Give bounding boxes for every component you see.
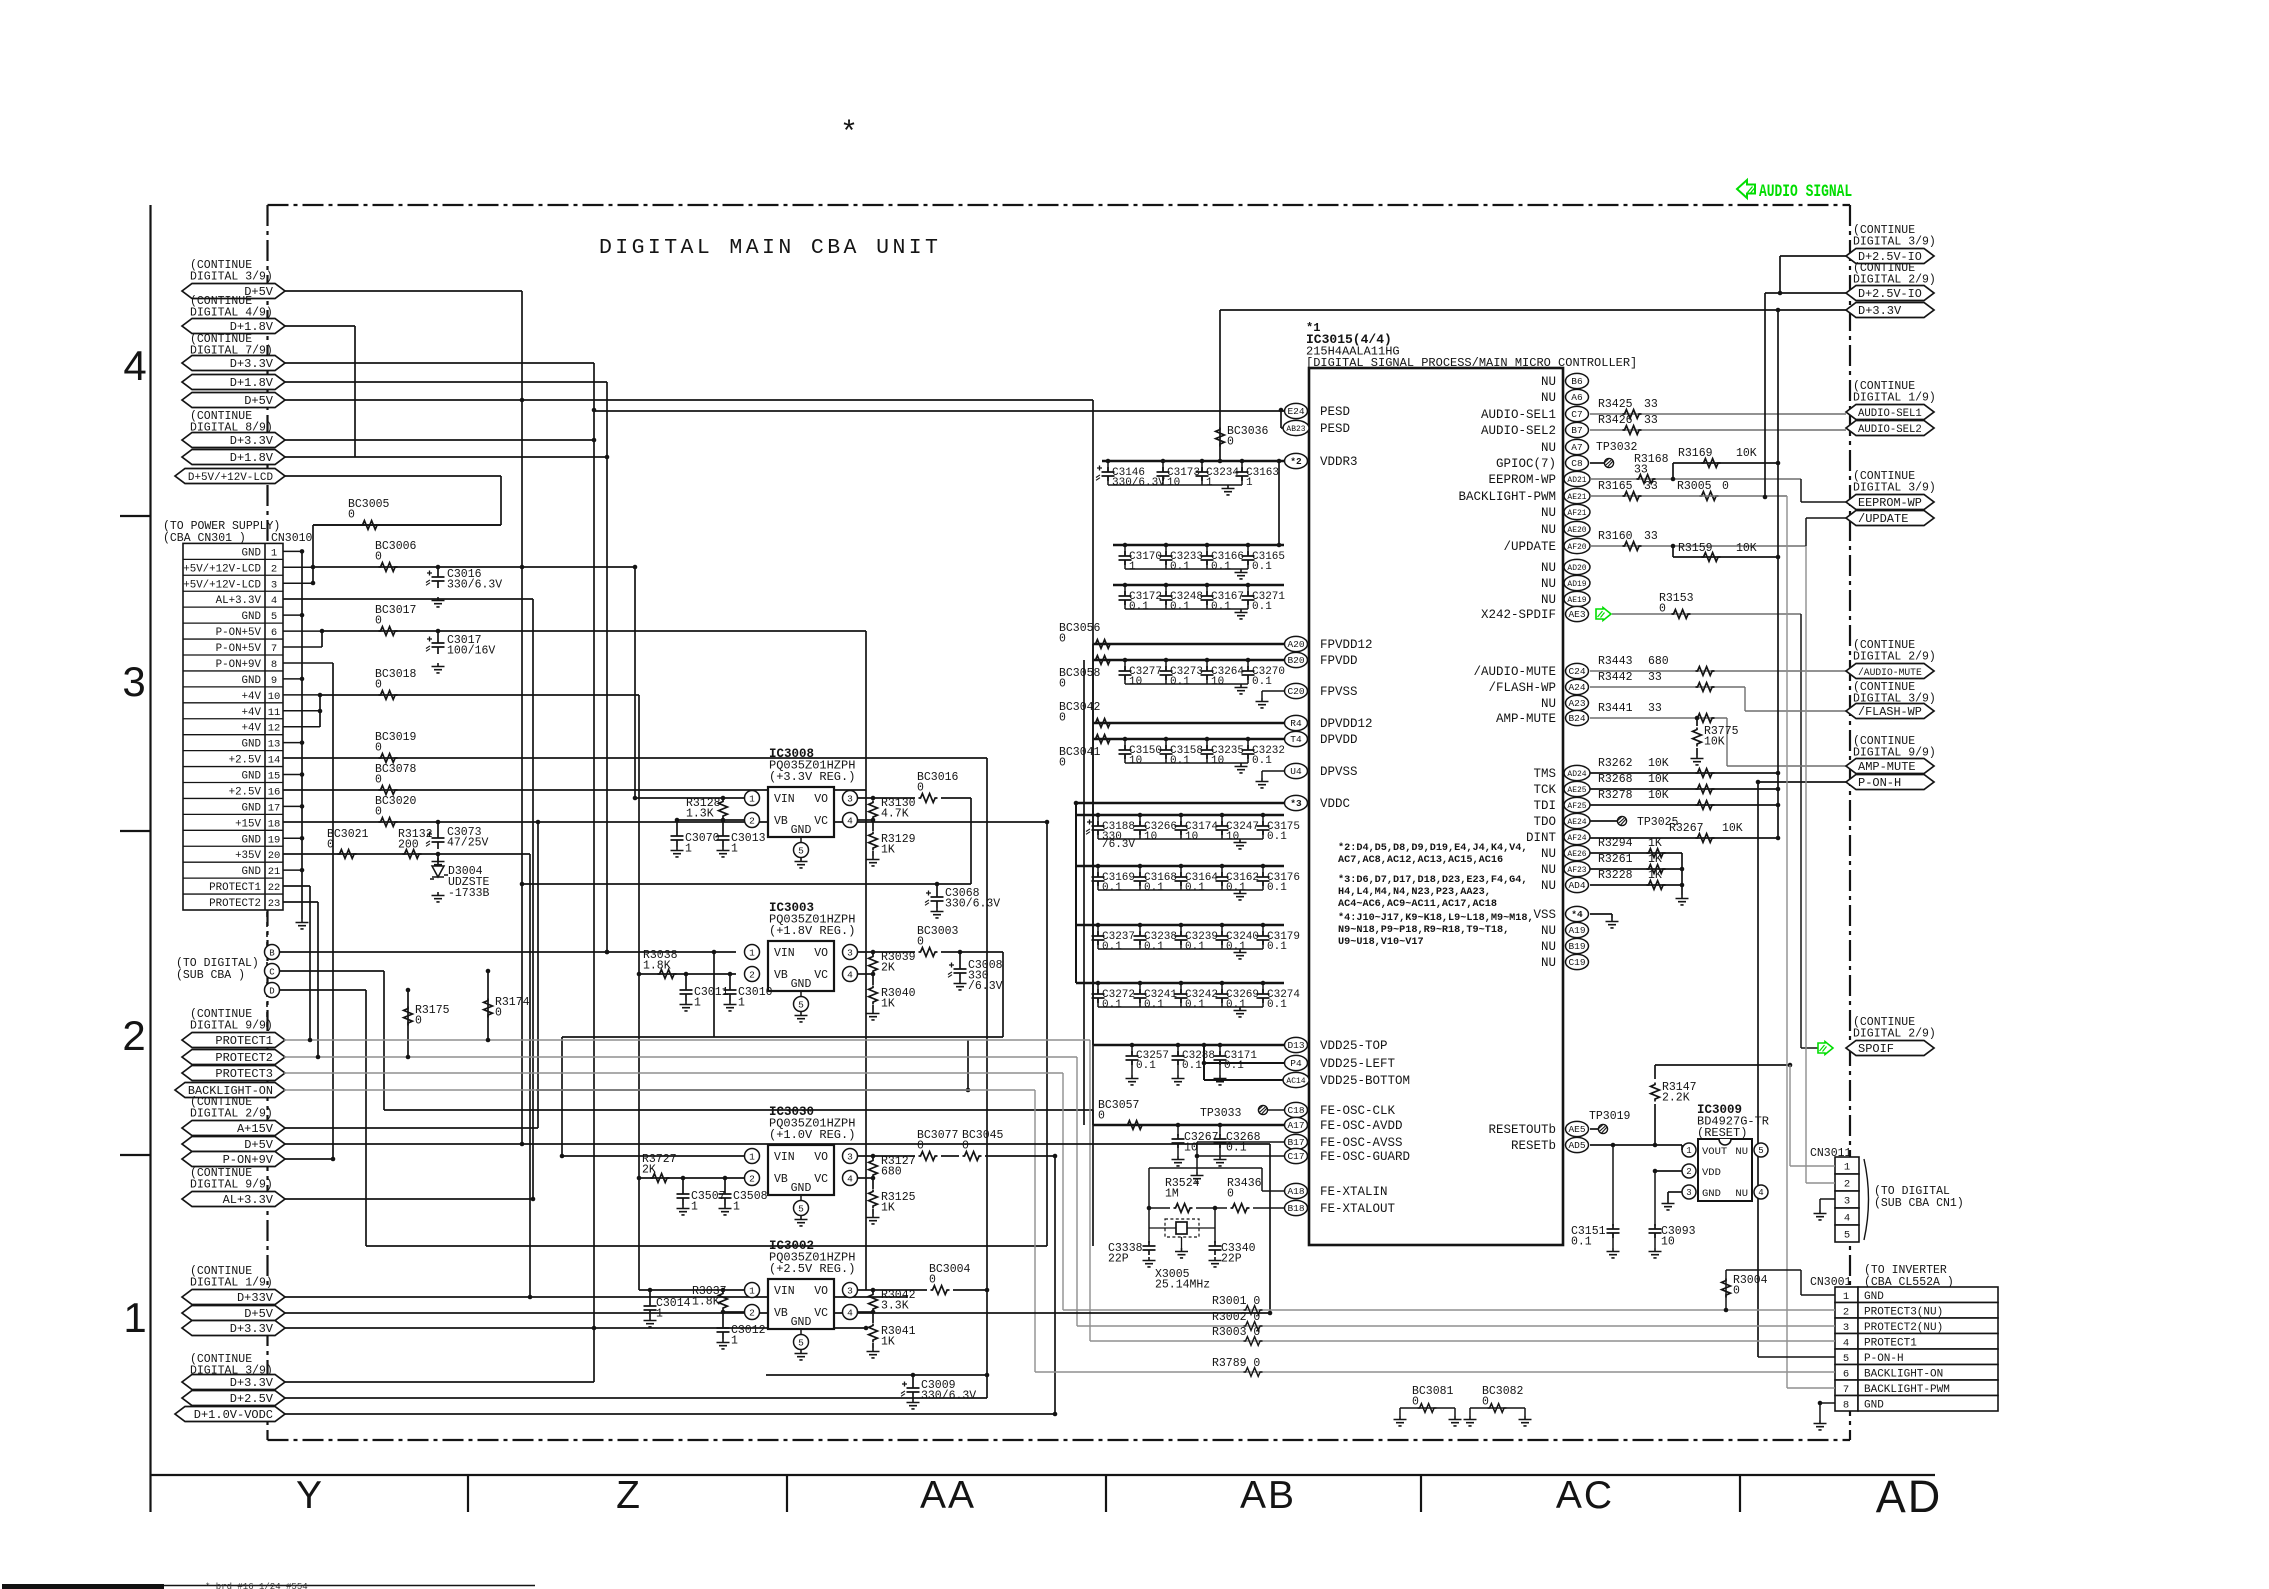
svg-text:PESD: PESD [1320, 405, 1350, 419]
svg-text:C8: C8 [1571, 458, 1583, 469]
svg-text:VC: VC [814, 815, 828, 828]
flag D+5V lower [182, 1137, 285, 1152]
svg-text:GND: GND [1864, 1399, 1884, 1411]
svg-text:P4: P4 [1290, 1058, 1302, 1069]
svg-text:AL+3.3V: AL+3.3V [216, 595, 262, 607]
resistor R3038 [658, 970, 677, 979]
svg-text:+2.5V: +2.5V [229, 755, 262, 767]
svg-text:(+2.5V REG.): (+2.5V REG.) [769, 1262, 855, 1276]
IC3015 pin *4 VSS [1566, 906, 1589, 921]
svg-text:GND: GND [791, 1316, 812, 1329]
svg-text:13: 13 [268, 739, 281, 751]
svg-text:+4V: +4V [242, 691, 262, 703]
IC3015 pin B6 NU [1566, 373, 1589, 388]
wire DINT row [1590, 837, 1778, 839]
IC3015 pin *3 VDDC [1285, 795, 1308, 810]
svg-text:/FLASH-WP: /FLASH-WP [1858, 705, 1922, 719]
svg-text:VC: VC [814, 969, 828, 982]
capacitor C3151 [1612, 1145, 1614, 1226]
svg-text:0.1: 0.1 [1571, 1236, 1592, 1249]
resistor R3128 [719, 800, 728, 819]
wire flag D+1.8V y457 [284, 456, 607, 458]
svg-text:2: 2 [271, 563, 277, 575]
svg-text:PROTECT2: PROTECT2 [209, 898, 261, 910]
green flag AUDIO SIGNAL [1737, 180, 1755, 198]
svg-text:FE-XTALIN: FE-XTALIN [1320, 1185, 1388, 1199]
capacitor bank row C3188/C3266/C3174/C3247/C3175 [1076, 814, 1284, 816]
IC3015 pin AE25 TCK [1564, 781, 1590, 796]
svg-text:DIGITAL 9/9): DIGITAL 9/9) [190, 1179, 273, 1192]
svg-text:1: 1 [749, 948, 755, 959]
svg-text:/6.3V: /6.3V [1102, 839, 1135, 851]
svg-text:3: 3 [847, 948, 853, 959]
IC3030 output wiring [858, 1155, 915, 1157]
svg-text:C20: C20 [1287, 686, 1304, 697]
svg-text:AUDIO SIGNAL: AUDIO SIGNAL [1759, 181, 1852, 201]
svg-text:1K: 1K [881, 844, 895, 857]
svg-text:C19: C19 [1568, 957, 1585, 968]
wire +35V vertical x530 [529, 854, 531, 1297]
flag PROTECT2 [182, 1050, 285, 1065]
grid ruler bottom line [150, 1474, 1935, 1476]
svg-text:DIGITAL 2/9): DIGITAL 2/9) [190, 1108, 273, 1121]
svg-text:7: 7 [271, 643, 277, 655]
svg-text:D: D [269, 987, 274, 997]
IC3003 input wiring [639, 973, 736, 975]
IC3009 wiring [1681, 1149, 1683, 1151]
IC3002 input wiring [639, 1289, 744, 1291]
svg-text:N9~N18,P9~P18,R9~R18,T9~T18,: N9~N18,P9~P18,R9~R18,T9~T18, [1338, 925, 1509, 936]
wire flag D+3.3V y440 [284, 439, 594, 441]
svg-text:10: 10 [1144, 831, 1157, 843]
svg-text:AE20: AE20 [1567, 526, 1586, 535]
svg-text:AF24: AF24 [1567, 834, 1586, 843]
svg-text:GPIOC(7): GPIOC(7) [1496, 457, 1556, 471]
svg-text:0.1: 0.1 [1170, 676, 1190, 688]
svg-text:VDD25-LEFT: VDD25-LEFT [1320, 1057, 1396, 1071]
svg-text:AMP-MUTE: AMP-MUTE [1858, 760, 1916, 774]
svg-text:(SUB CBA CN1): (SUB CBA CN1) [1874, 1197, 1964, 1210]
svg-text:25.14MHz: 25.14MHz [1155, 1279, 1210, 1292]
svg-text:0.1: 0.1 [1267, 941, 1287, 953]
pulldown rail ground [1681, 853, 1683, 895]
svg-text:200: 200 [398, 839, 419, 852]
svg-text:AD19: AD19 [1567, 580, 1586, 589]
svg-text:GND: GND [242, 802, 261, 814]
svg-text:PESD: PESD [1320, 422, 1350, 436]
svg-text:3.3K: 3.3K [881, 1300, 909, 1313]
bottom-left revision bar [2, 1584, 164, 1589]
svg-text:R3441: R3441 [1598, 702, 1633, 715]
wire L x968 [536, 1089, 968, 1091]
svg-text:D+5V/+12V-LCD: D+5V/+12V-LCD [188, 472, 273, 484]
svg-text:330/6.3V: 330/6.3V [921, 1390, 976, 1403]
svg-text:R3442: R3442 [1598, 671, 1633, 684]
wire CN3001 P-ON-H [1758, 1356, 1835, 1358]
svg-text:Z: Z [616, 1474, 640, 1517]
svg-text:GND: GND [242, 834, 261, 846]
svg-text:+2.5V: +2.5V [229, 786, 262, 798]
svg-text:0: 0 [375, 551, 382, 564]
flag AL+3.3V [182, 1192, 285, 1207]
wire TCK row [1590, 788, 1778, 790]
svg-text:0.1: 0.1 [1144, 941, 1164, 953]
resistor R3175 [407, 990, 409, 1057]
svg-text:0: 0 [1227, 436, 1234, 449]
svg-text:AA: AA [920, 1474, 976, 1517]
svg-text:+5V/+12V-LCD: +5V/+12V-LCD [183, 563, 261, 575]
svg-text:NU: NU [1541, 924, 1556, 938]
svg-text:17: 17 [268, 802, 281, 814]
wire +4V bus vertical x639 [638, 695, 640, 1290]
svg-text:NU: NU [1541, 697, 1556, 711]
rail FPVDD12/FPVDD wires [1093, 643, 1284, 646]
svg-text:1: 1 [731, 1335, 738, 1348]
svg-text:A24: A24 [1568, 682, 1585, 693]
wire D+5V bus vertical x1270 [1269, 1144, 1271, 1313]
flag BACKLIGHT-ON [175, 1083, 285, 1098]
IC3015 pin C18 FE-OSC-CLK [1285, 1102, 1308, 1117]
flag D+1.8V (3) [182, 450, 285, 465]
svg-text:D+3.3V: D+3.3V [230, 1322, 274, 1336]
svg-text:B7: B7 [1571, 425, 1582, 436]
svg-text:DIGITAL 1/9): DIGITAL 1/9) [1853, 392, 1936, 405]
svg-text:0.1: 0.1 [1136, 1060, 1156, 1072]
svg-text:0.1: 0.1 [1170, 755, 1190, 767]
wire NU pulldowns [1590, 852, 1682, 854]
svg-text:FE-OSC-CLK: FE-OSC-CLK [1320, 1104, 1396, 1118]
resistor R3001 [1063, 1309, 1835, 1311]
svg-text:3: 3 [122, 658, 145, 705]
svg-text:AUDIO-SEL2: AUDIO-SEL2 [1481, 424, 1556, 438]
resistor R3727 [639, 1177, 744, 1179]
svg-text:5: 5 [798, 846, 804, 857]
flag EEPROM-WP [1801, 501, 1846, 503]
pullup rail x1778 [1777, 310, 1779, 838]
svg-text:0: 0 [1482, 1396, 1489, 1409]
wire 2.5V bottom loop [766, 1374, 987, 1376]
IC3030 input wiring [562, 1155, 744, 1157]
svg-text:A19: A19 [1568, 925, 1585, 936]
IC3015 pin AD24 TMS [1564, 765, 1590, 780]
IC3015 pin A19 NU [1566, 922, 1589, 937]
svg-text:R3789 0: R3789 0 [1212, 1357, 1260, 1370]
svg-text:B17: B17 [1287, 1137, 1304, 1148]
wire vertical x562 [561, 1037, 563, 1156]
wire P-ON-H [1758, 781, 1846, 783]
svg-text:FE-OSC-GUARD: FE-OSC-GUARD [1320, 1150, 1410, 1164]
gray bus verticals right [1789, 1065, 1791, 1166]
svg-text:AE24: AE24 [1567, 818, 1586, 827]
svg-text:10K: 10K [1736, 447, 1757, 460]
svg-text:10: 10 [1129, 755, 1142, 767]
wire flag D+5V y400 [284, 399, 1093, 401]
flag A+15V [182, 1121, 285, 1136]
svg-text:D+1.8V: D+1.8V [230, 320, 274, 334]
capacitor bank row C3172/C3248/C3167/C3271 [1113, 584, 1284, 587]
svg-text:NU: NU [1541, 847, 1556, 861]
resistor R3125 [869, 1190, 878, 1209]
wire +4V bus vertical x866 [865, 631, 867, 1290]
svg-text:3: 3 [1686, 1188, 1691, 1198]
svg-text:A17: A17 [1287, 1120, 1304, 1131]
svg-text:22P: 22P [1108, 1253, 1129, 1266]
svg-text:0: 0 [917, 782, 924, 795]
svg-text:1: 1 [271, 547, 277, 559]
capacitor bank row C3277/C3273/C3264/C3270 [1125, 659, 1248, 661]
svg-text:0.1: 0.1 [1226, 882, 1246, 894]
svg-text:1: 1 [749, 1152, 755, 1163]
svg-text:3: 3 [847, 1286, 853, 1297]
wire rail feed x1084 [1083, 660, 1085, 1125]
svg-text:BACKLIGHT-ON: BACKLIGHT-ON [1864, 1368, 1943, 1380]
capacitor bank row C3150/C3158/C3235/C3232 [1125, 738, 1248, 740]
capacitor C3508 [724, 1178, 726, 1187]
svg-text:P-ON+9V: P-ON+9V [223, 1153, 274, 1167]
svg-text:VDD25-BOTTOM: VDD25-BOTTOM [1320, 1074, 1410, 1088]
svg-text:1M: 1M [1165, 1188, 1179, 1201]
wires lower-left flags [284, 1039, 1090, 1041]
svg-text:0: 0 [1227, 1188, 1234, 1201]
flag D+5V/+12V-LCD [175, 469, 285, 484]
wire pin4 AL+3.3V [283, 598, 533, 600]
flag D+1.8V (2) [182, 375, 285, 390]
svg-text:DIGITAL 1/9): DIGITAL 1/9) [190, 1277, 273, 1290]
svg-text:10K: 10K [1648, 773, 1669, 786]
capacitor C3093 [1654, 1171, 1656, 1226]
IC3015 pin B20 FPVDD [1285, 652, 1308, 667]
svg-text:33: 33 [1644, 480, 1658, 493]
IC3015 pin C7 AUDIO-SEL1 [1566, 406, 1589, 421]
IC3015 pin AB23 PESD [1283, 420, 1309, 435]
svg-text:VIN: VIN [774, 1151, 795, 1164]
svg-text:AF25: AF25 [1567, 802, 1586, 811]
svg-text:R3268: R3268 [1598, 773, 1633, 786]
svg-text:RESETb: RESETb [1511, 1139, 1556, 1153]
wire C-circle route y1110 [384, 1109, 1093, 1111]
svg-text:+4V: +4V [242, 707, 262, 719]
svg-text:4.7K: 4.7K [881, 808, 909, 821]
svg-text:D13: D13 [1287, 1040, 1304, 1051]
svg-text:AF20: AF20 [1567, 543, 1586, 552]
svg-text:2: 2 [749, 1308, 755, 1319]
svg-text:3: 3 [1843, 1322, 1849, 1334]
svg-text:20: 20 [268, 850, 281, 862]
svg-text:GND: GND [242, 771, 261, 783]
svg-text:A6: A6 [1571, 392, 1583, 403]
svg-text:1: 1 [656, 1308, 663, 1321]
svg-text:R3005: R3005 [1677, 480, 1712, 493]
svg-text:TDO: TDO [1533, 815, 1556, 829]
svg-text:1: 1 [685, 843, 692, 856]
flag D+5V bottom [182, 1306, 285, 1321]
svg-text:PROTECT2(NU): PROTECT2(NU) [1864, 1322, 1943, 1334]
CN3010 ground bus [301, 551, 303, 919]
svg-text:GND: GND [242, 739, 261, 751]
svg-text:0: 0 [1659, 603, 1666, 616]
test point TP3025 [1590, 820, 1617, 822]
svg-text:5: 5 [798, 1338, 804, 1349]
svg-text:9: 9 [271, 675, 277, 687]
svg-text:3: 3 [1844, 1196, 1850, 1208]
svg-text:R3002 0: R3002 0 [1212, 1311, 1260, 1324]
grid ruler left line [149, 205, 151, 1512]
IC3015 pin B7 AUDIO-SEL2 [1566, 422, 1589, 437]
resistor R3002 [1077, 1325, 1835, 1327]
svg-text:R3003 0: R3003 0 [1212, 1326, 1260, 1339]
svg-text:D+3.3V: D+3.3V [230, 434, 274, 448]
IC3003 output wiring [858, 951, 915, 953]
svg-text:0.1: 0.1 [1185, 882, 1205, 894]
dashed link below CN3010 [266, 912, 268, 1035]
IC3015 pin AD19 NU [1564, 575, 1590, 590]
flag D+5V [182, 284, 285, 299]
wire flag D+5V top y291 [284, 290, 522, 292]
svg-text:33: 33 [1644, 398, 1658, 411]
svg-text:VDD: VDD [1702, 1167, 1721, 1179]
svg-text:680: 680 [881, 1166, 902, 1179]
svg-text:TMS: TMS [1533, 767, 1556, 781]
svg-text:DIGITAL MAIN CBA UNIT: DIGITAL MAIN CBA UNIT [599, 236, 941, 260]
svg-text:*3: *3 [1290, 798, 1302, 809]
IC3015 pin A18 FE-XTALIN [1285, 1183, 1308, 1198]
test point TP3019 [1590, 1128, 1598, 1130]
svg-text:2: 2 [1686, 1167, 1691, 1177]
svg-text:0: 0 [1059, 757, 1066, 770]
svg-text:1: 1 [1843, 1291, 1849, 1303]
svg-text:0.1: 0.1 [1129, 601, 1149, 613]
svg-text:AUDIO-SEL1: AUDIO-SEL1 [1858, 408, 1922, 420]
svg-text:1K: 1K [881, 1202, 895, 1215]
svg-text:0: 0 [375, 742, 382, 755]
capacitor C3011 [685, 974, 687, 983]
resistor R3003 [1090, 1340, 1835, 1342]
svg-text:D+3.3V: D+3.3V [1858, 304, 1902, 318]
resistor R3789 [1035, 1371, 1835, 1373]
IC3015 pin C19 NU [1566, 954, 1589, 969]
svg-text:2: 2 [1843, 1306, 1849, 1318]
svg-text:* brd #16 1/24 #554: * brd #16 1/24 #554 [205, 1582, 308, 1589]
flag P-ON+9V [182, 1152, 285, 1167]
test point TP3032 [1590, 462, 1604, 464]
svg-text:AE19: AE19 [1567, 596, 1586, 605]
svg-text:AB23: AB23 [1286, 425, 1305, 434]
svg-text:0: 0 [917, 1140, 924, 1153]
svg-text:0.1: 0.1 [1170, 561, 1190, 573]
svg-text:NU: NU [1541, 956, 1556, 970]
svg-text:RESETOUTb: RESETOUTb [1488, 1123, 1556, 1137]
wire bus vertical x635 [634, 567, 636, 798]
svg-text:AUDIO-SEL1: AUDIO-SEL1 [1481, 408, 1556, 422]
svg-text:2.2K: 2.2K [1662, 1092, 1690, 1105]
svg-text:0.1: 0.1 [1226, 999, 1246, 1011]
rail VDD25 [1093, 1044, 1284, 1047]
svg-text:6: 6 [271, 627, 277, 639]
svg-text:21: 21 [268, 866, 281, 878]
svg-text:3: 3 [847, 1152, 853, 1163]
svg-text:DIGITAL 9/9): DIGITAL 9/9) [190, 1020, 273, 1033]
svg-text:330/6.3V: 330/6.3V [447, 579, 502, 592]
svg-text:PROTECT3(NU): PROTECT3(NU) [1864, 1306, 1943, 1318]
svg-text:VB: VB [774, 1173, 788, 1186]
flag P-ON-H [1846, 775, 1934, 790]
svg-text:19: 19 [268, 834, 281, 846]
svg-text:AF23: AF23 [1567, 866, 1586, 875]
svg-text:(+1.0V REG.): (+1.0V REG.) [769, 1128, 855, 1142]
svg-text:2: 2 [749, 970, 755, 981]
wire AL+3.3V vertical x533 [532, 599, 534, 1199]
flag D+3.3V bottom [182, 1321, 285, 1336]
svg-text:PROTECT1: PROTECT1 [1864, 1337, 1917, 1349]
wire TMS row [1590, 772, 1778, 774]
svg-text:0.1: 0.1 [1252, 561, 1272, 573]
svg-text:AD21: AD21 [1567, 476, 1586, 485]
IC3015 pin AE26 NU [1564, 845, 1590, 860]
IC3015 pin AE3 X242-SPDIF [1566, 606, 1589, 621]
capacitor C3016 [432, 570, 445, 588]
svg-text:0: 0 [348, 509, 355, 522]
svg-text:0.1: 0.1 [1144, 999, 1164, 1011]
flag AUDIO-SEL1 [1846, 405, 1934, 420]
svg-text:1: 1 [749, 1286, 755, 1297]
capacitor bank row C3146/C3173/C3234/C3163 [1102, 460, 1284, 463]
svg-text:D+5V: D+5V [244, 1138, 274, 1152]
svg-text:5: 5 [1844, 1230, 1850, 1242]
svg-text:VC: VC [814, 1173, 828, 1186]
svg-text:5: 5 [271, 611, 277, 623]
svg-text:AD: AD [1876, 1471, 1943, 1522]
svg-text:GND: GND [242, 866, 261, 878]
DPVSS stub [1262, 770, 1284, 772]
IC3015 pin AE21 BACKLIGHT-PWM [1564, 488, 1590, 503]
capacitor C3267 [1177, 1125, 1179, 1136]
svg-text:3: 3 [847, 794, 853, 805]
svg-text:C17: C17 [1287, 1151, 1304, 1162]
svg-text:R3001 0: R3001 0 [1212, 1295, 1260, 1308]
svg-text:0.1: 0.1 [1226, 1142, 1247, 1155]
svg-text:33: 33 [1644, 414, 1658, 427]
svg-text:5: 5 [798, 1204, 804, 1215]
svg-text:0: 0 [1059, 633, 1066, 646]
svg-text:R3426: R3426 [1598, 414, 1633, 427]
svg-text:VIN: VIN [774, 947, 795, 960]
wire AUDIO-SEL2 [1590, 429, 1846, 431]
capacitor C3012 [722, 1311, 724, 1321]
svg-text:R4: R4 [1290, 718, 1302, 729]
flag /FLASH-WP [1846, 704, 1934, 719]
wire /FLASH-WP row [1590, 686, 1745, 688]
svg-text:0: 0 [375, 774, 382, 787]
svg-text:DIGITAL 9/9): DIGITAL 9/9) [1853, 747, 1936, 760]
svg-text:D+5V: D+5V [244, 1307, 274, 1321]
svg-text:14: 14 [268, 755, 281, 767]
svg-text:2: 2 [749, 1174, 755, 1185]
resistor R3130 [869, 801, 878, 820]
wire pin23 PROTECT2 drop [283, 901, 318, 903]
svg-text:P-ON+5V: P-ON+5V [216, 643, 262, 655]
IC3003 ground pin [795, 1012, 808, 1022]
svg-text:4: 4 [1843, 1337, 1849, 1349]
svg-text:FPVDD12: FPVDD12 [1320, 638, 1373, 652]
IC3015 pin AF24 DINT [1564, 829, 1590, 844]
svg-text:DIGITAL 3/9): DIGITAL 3/9) [1853, 482, 1936, 495]
svg-text:1: 1 [1206, 477, 1213, 489]
svg-text:D+5V: D+5V [244, 394, 274, 408]
connector CN3010 table [183, 543, 283, 910]
IC3015 pin A23 NU [1566, 695, 1589, 710]
svg-text:GND: GND [1864, 1291, 1884, 1303]
svg-text:GND: GND [791, 1182, 812, 1195]
